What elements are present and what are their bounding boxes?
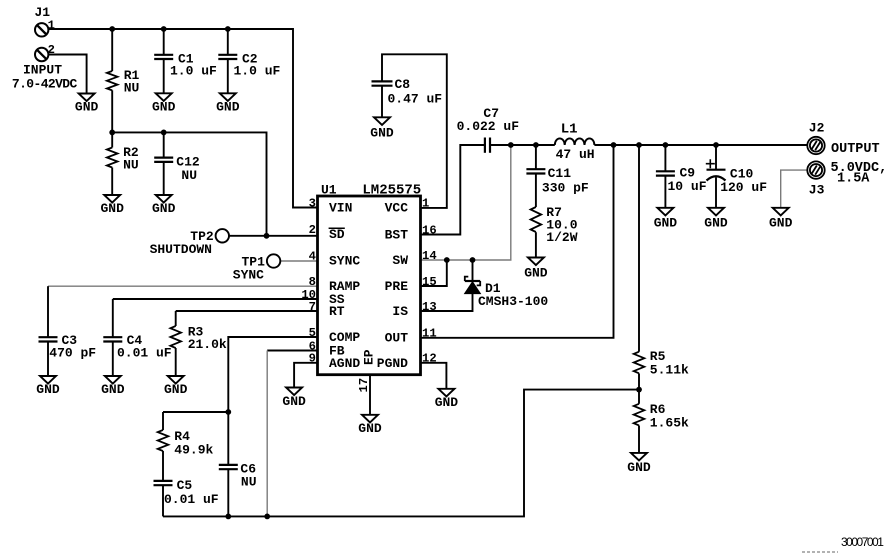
ground R2 [100, 195, 124, 216]
junction OUT/rail [611, 142, 617, 148]
R4 label [174, 429, 213, 458]
C4 label [117, 333, 172, 360]
C12 label [176, 155, 200, 184]
svg-text:PRE: PRE [385, 279, 409, 294]
R2 label [123, 145, 139, 173]
svg-text:SHUTDOWN: SHUTDOWN [150, 242, 212, 257]
C7 label [457, 106, 520, 134]
wire input rail from J1-1 to VIN pin 3 [49, 29, 318, 208]
svg-text:SYNC: SYNC [329, 254, 360, 269]
svg-text:OUTPUT: OUTPUT [831, 142, 880, 157]
C6 label [240, 462, 256, 490]
svg-text:INPUT: INPUT [23, 63, 62, 78]
svg-text:7.0-42VDC: 7.0-42VDC [12, 76, 78, 91]
svg-text:GND: GND [769, 216, 793, 231]
wire SW pin 14 to switch node [421, 145, 511, 260]
svg-text:C8: C8 [395, 77, 411, 92]
junction C9/rail [663, 142, 669, 148]
wire D1 anode to IS pin 13 [421, 260, 473, 311]
svg-text:GND: GND [524, 266, 548, 281]
C2 label [234, 52, 281, 79]
svg-text:2: 2 [309, 223, 316, 237]
svg-text:NU: NU [181, 168, 197, 183]
junction C2/input rail [225, 26, 231, 32]
ground R6 [627, 453, 651, 475]
J1 INPUT label [12, 63, 78, 92]
svg-text:GND: GND [152, 100, 176, 115]
ground C12 [152, 195, 176, 216]
svg-text:120 uF: 120 uF [720, 180, 767, 195]
junction C12/NU rail [161, 130, 167, 136]
svg-text:J2: J2 [809, 121, 825, 136]
svg-text:14: 14 [422, 249, 437, 263]
wire COMP pin 5 to compensation node [228, 337, 317, 412]
capacitor C6 [219, 412, 238, 516]
svg-text:U1: U1 [321, 183, 337, 198]
junction D1/SW [470, 257, 476, 263]
svg-text:OUT: OUT [385, 331, 409, 346]
junction C11/rail [533, 142, 539, 148]
wire NU divider rail R1/C12 to SD [112, 132, 266, 235]
svg-text:GND: GND [101, 382, 125, 397]
R7 label [546, 205, 577, 245]
svg-text:470 pF: 470 pF [49, 345, 96, 360]
C11 label [542, 166, 589, 196]
svg-text:49.9k: 49.9k [174, 443, 213, 458]
resistor R7 [531, 207, 542, 258]
R1 label [124, 68, 140, 96]
svg-text:GND: GND [216, 100, 240, 115]
C8 label [388, 77, 443, 107]
capacitor C5 [154, 481, 173, 517]
resistor R6 [634, 390, 645, 453]
resistor R1 [107, 29, 118, 132]
capacitor C11 [526, 145, 545, 207]
wire switch node rail C7 to J2 OUTPUT [490, 144, 807, 146]
connector J2 [807, 137, 824, 154]
svg-text:1.5A: 1.5A [837, 172, 870, 187]
cropped text at bottom edge [802, 551, 838, 553]
svg-text:17: 17 [357, 378, 371, 393]
capacitor C7 [485, 138, 490, 153]
junction R5/rail [636, 142, 642, 148]
capacitor C3 [39, 286, 58, 376]
svg-text:AGND: AGND [329, 356, 360, 371]
test point TP1 [267, 254, 280, 267]
svg-text:L1: L1 [561, 122, 578, 138]
C9 label [668, 166, 707, 195]
svg-text:21.0k: 21.0k [188, 337, 227, 352]
svg-text:15: 15 [422, 275, 437, 289]
svg-text:GND: GND [627, 460, 651, 475]
svg-text:7: 7 [309, 300, 316, 314]
resistor R3 [170, 311, 181, 376]
junction SD node [264, 233, 270, 239]
svg-text:5.11k: 5.11k [650, 363, 689, 378]
svg-text:IS: IS [392, 304, 408, 319]
ground C3 [36, 376, 60, 397]
ground C4 [101, 376, 125, 397]
svg-text:GND: GND [654, 216, 678, 231]
wire FB pin 6 down to feedback rail [267, 350, 317, 352]
C10 label [720, 167, 767, 196]
wire J1-2 to ground [49, 55, 87, 94]
wire AGND pin 9 to ground [294, 363, 317, 388]
ground J1-2 [75, 94, 99, 115]
svg-text:NU: NU [124, 81, 140, 96]
U1 pin name SD [329, 227, 345, 242]
svg-text:GND: GND [358, 421, 382, 436]
TP2 label [150, 229, 214, 257]
svg-text:16: 16 [422, 224, 437, 238]
junction divider node [636, 387, 642, 393]
L1 label [556, 122, 595, 163]
ground EP pin 17 [358, 415, 382, 436]
R6 label [650, 402, 689, 431]
J3 output rating label [831, 161, 888, 187]
svg-text:PGND: PGND [377, 356, 408, 371]
svg-text:11: 11 [422, 327, 437, 341]
svg-text:30007001: 30007001 [841, 535, 884, 549]
svg-text:1.0 uF: 1.0 uF [170, 64, 217, 79]
svg-text:C11: C11 [548, 166, 572, 181]
resistor R5 [634, 145, 645, 390]
capacitor C8 [372, 81, 393, 117]
junction COMP/R4/C6 node [225, 409, 231, 415]
ground AGND [282, 388, 306, 409]
svg-text:47 uH: 47 uH [556, 147, 595, 162]
svg-text:1.0 uF: 1.0 uF [234, 64, 281, 79]
junction C1/input rail [161, 26, 167, 32]
wire SS pin 10 to C4 [113, 298, 318, 300]
R5 label [650, 349, 689, 378]
svg-text:SW: SW [392, 253, 408, 268]
svg-text:BST: BST [385, 228, 409, 243]
capacitor C12 [154, 132, 173, 195]
svg-text:NU: NU [241, 475, 257, 490]
resistor R4 [158, 412, 169, 481]
svg-text:1: 1 [422, 197, 429, 211]
junction FB/feedback rail [264, 514, 270, 520]
svg-text:0.01 uF: 0.01 uF [164, 492, 219, 507]
wire TP1 to SYNC pin 4 [280, 260, 317, 262]
junction C6/feedback rail [225, 514, 231, 520]
svg-text:1: 1 [48, 19, 55, 33]
capacitor C9 [656, 145, 675, 208]
ground J3 return [769, 208, 793, 231]
ground PGND [435, 389, 459, 410]
wire RAMP pin 8 to C3 [48, 285, 318, 287]
svg-text:GND: GND [435, 395, 459, 410]
wire VCC pin 1 to C8 loop [382, 54, 447, 208]
wire EP pin 17 to ground [369, 375, 371, 415]
svg-text:4: 4 [309, 250, 316, 264]
R3 label [188, 325, 227, 353]
svg-text:C5: C5 [177, 478, 193, 493]
C1 label [170, 52, 217, 79]
svg-text:SYNC: SYNC [233, 267, 264, 282]
svg-text:13: 13 [422, 300, 437, 314]
capacitor C4 [103, 299, 122, 376]
svg-text:GND: GND [282, 394, 306, 409]
svg-text:2: 2 [48, 43, 55, 57]
svg-text:VCC: VCC [385, 201, 409, 216]
junction C10/rail [713, 142, 719, 148]
op-amp U1 LM25575 regulator body [318, 196, 421, 375]
svg-text:0.01 uF: 0.01 uF [117, 345, 172, 360]
wire compensation node horizontal R4/C6 [163, 411, 228, 413]
diode D1 schottky [465, 277, 481, 294]
svg-text:GND: GND [75, 100, 99, 115]
svg-text:GND: GND [36, 382, 60, 397]
ground C2 [216, 93, 240, 114]
svg-text:J1: J1 [35, 5, 51, 20]
junction PRE/SW [444, 257, 450, 263]
wire PRE pin 15 to SW node [421, 260, 447, 286]
wire J3 return to ground [781, 170, 808, 208]
resistor R2 [107, 132, 118, 195]
svg-text:J3: J3 [809, 182, 825, 197]
wire RT pin 7 to R3 [176, 310, 318, 312]
svg-text:0.022 uF: 0.022 uF [457, 119, 520, 134]
svg-text:NU: NU [123, 158, 139, 173]
svg-text:EP: EP [361, 349, 376, 365]
svg-text:1.65k: 1.65k [650, 416, 689, 431]
test point TP2 [216, 229, 229, 242]
svg-text:9: 9 [309, 352, 316, 366]
wire OUT pin 11 up to output rail [421, 145, 614, 338]
connector J3 [807, 161, 824, 178]
ground R3 [164, 376, 188, 397]
svg-text:1/2W: 1/2W [546, 230, 577, 245]
svg-text:330 pF: 330 pF [542, 181, 589, 196]
svg-text:SD: SD [329, 227, 345, 242]
svg-text:RT: RT [329, 304, 345, 319]
svg-text:GND: GND [164, 382, 188, 397]
ground C9 [654, 208, 678, 231]
junction R2/NU rail [109, 130, 115, 136]
svg-text:GND: GND [100, 201, 124, 216]
TP1 label [233, 254, 265, 282]
junction SW/rail [508, 142, 514, 148]
capacitor C1 [154, 29, 173, 93]
ground R7 [524, 258, 548, 281]
wire BST pin 16 up to C7 [421, 145, 485, 235]
svg-text:12: 12 [422, 352, 437, 366]
svg-text:LM25575: LM25575 [362, 183, 421, 199]
D1 label [478, 281, 548, 309]
wire feedback bottom rail to divider node [163, 390, 639, 517]
svg-text:GND: GND [370, 126, 394, 141]
svg-text:0.47 uF: 0.47 uF [388, 92, 443, 107]
inductor L1 [555, 138, 595, 145]
svg-text:GND: GND [704, 216, 728, 231]
wire FB vertical to feedback rail [266, 351, 268, 517]
ground C8 [370, 117, 394, 140]
svg-text:VIN: VIN [329, 201, 352, 216]
svg-text:CMSH3-100: CMSH3-100 [478, 294, 548, 309]
connector J1 pin 1 [35, 23, 48, 36]
junction R1/input rail [109, 26, 115, 32]
capacitor C10 polarized [706, 145, 726, 208]
svg-text:10 uF: 10 uF [668, 179, 707, 194]
C5 label [164, 478, 219, 507]
C3 label [49, 333, 96, 360]
ground C10 [704, 208, 728, 231]
wire PGND pin 12 to ground [421, 363, 447, 389]
svg-text:GND: GND [152, 201, 176, 216]
svg-text:3: 3 [309, 197, 316, 211]
capacitor C2 [218, 29, 237, 93]
ground C1 [152, 93, 176, 114]
connector J1 pin 2 [35, 48, 48, 61]
svg-text:5: 5 [309, 326, 316, 340]
wire TP2 to SD pin 2 [229, 235, 318, 237]
